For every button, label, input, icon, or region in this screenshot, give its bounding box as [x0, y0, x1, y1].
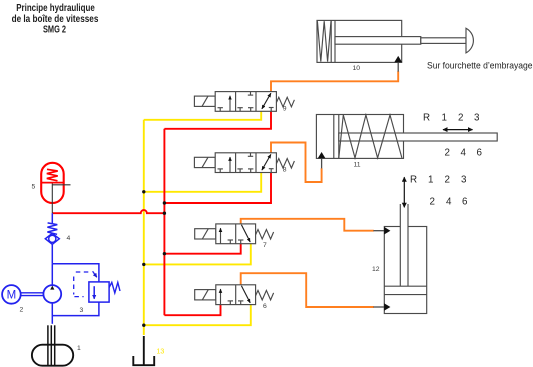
- title: [12, 3, 99, 36]
- blocked port T in left box of valve 7: [229, 240, 231, 244]
- suction triple line to tank 1: [48, 325, 55, 365]
- accumulator 5: [41, 163, 64, 203]
- svg-text:3: 3: [461, 174, 467, 185]
- blocked port T top of box2 of valve 8: [250, 153, 252, 157]
- wire yellow valve9 to vertical: [144, 111, 261, 120]
- wire red distribution vertical: [163, 129, 165, 315]
- blocked port T bottom-left of box2 of valve 8: [239, 169, 241, 173]
- svg-text:3: 3: [80, 307, 84, 314]
- cylinder 11 (gear selector): [316, 115, 497, 159]
- poppet diamond of check valve 4: [45, 233, 59, 244]
- svg-text:12: 12: [372, 266, 380, 273]
- spring of valve 7: [256, 230, 274, 240]
- svg-text:Principe hydraulique: Principe hydraulique: [16, 3, 95, 14]
- svg-text:5: 5: [32, 184, 36, 191]
- shaft motor-pump: [21, 292, 44, 294]
- svg-text:6: 6: [263, 303, 267, 310]
- blocked port T in box1 of valve 9: [219, 108, 221, 112]
- label 10: [353, 65, 361, 72]
- valve 6 (2/2 solenoid valve): [195, 285, 274, 305]
- junction red-valve8: [163, 201, 166, 204]
- svg-text:4: 4: [67, 235, 71, 242]
- blocked port T bottom-right of box2 of valve 9: [250, 108, 252, 112]
- cylinder 10: [317, 20, 473, 62]
- rod of cylinder 11: [339, 133, 497, 141]
- spring of relief valve: [109, 282, 120, 293]
- blocked port T in right box of valve 6: [240, 301, 242, 305]
- gas side tick of accumulator: [52, 184, 70, 214]
- rod of cylinder 10: [335, 37, 421, 45]
- svg-text:2: 2: [458, 113, 463, 124]
- arrow in left box of valve 7: [220, 228, 222, 244]
- svg-text:2: 2: [445, 147, 450, 158]
- arrow in box1 of valve 9: [229, 96, 231, 112]
- piston of cylinder 11: [333, 115, 335, 159]
- svg-text:6: 6: [477, 147, 483, 158]
- valve 8 (3/2 solenoid valve): [194, 153, 294, 173]
- valve 9 (3/2 solenoid valve): [194, 92, 294, 112]
- body of valve 6: [216, 285, 256, 305]
- label 2: [20, 307, 24, 314]
- fork on rod: [466, 28, 473, 53]
- blocked port T in box3 of valve 9: [270, 108, 272, 112]
- spring of cylinder 10: [317, 21, 331, 61]
- svg-text:SMG 2: SMG 2: [43, 25, 66, 36]
- label 12: [372, 266, 380, 273]
- diagonal flow path in right box of valve 7: [241, 225, 250, 242]
- svg-text:13: 13: [157, 349, 165, 356]
- pump unit enclosure 3: [52, 264, 99, 316]
- arrow into relief valve: [93, 271, 97, 277]
- svg-text:2: 2: [445, 174, 450, 185]
- spring of check valve 4: [47, 223, 57, 234]
- wire orange valve8 to cylinder11: [271, 143, 322, 183]
- check valve 4: [45, 213, 59, 264]
- wire orange valve6 to cylinder12 bottom: [241, 273, 374, 307]
- solenoid of valve 7: [195, 229, 216, 239]
- diagonal flow path in box3 of valve 8: [262, 154, 271, 170]
- spring of valve 6: [256, 290, 274, 300]
- svg-text:Sur fourchette d’embrayage: Sur fourchette d’embrayage: [427, 61, 533, 72]
- piston of cylinder 10: [330, 20, 332, 62]
- label 5: [32, 184, 36, 191]
- svg-text:3: 3: [474, 113, 480, 124]
- pilot dashed line of relief valve: [74, 272, 89, 297]
- arrow in box1 of valve 8: [229, 157, 231, 173]
- diagonal flow path in box3 of valve 9: [262, 93, 271, 109]
- label 7: [263, 242, 267, 249]
- body of valve 8: [215, 153, 276, 173]
- junction yellow-tank13: [142, 324, 145, 327]
- blocked port T bottom-left of box2 of valve 9: [239, 108, 241, 112]
- wire yellow valve7 to vertical: [144, 244, 251, 265]
- svg-text:2: 2: [430, 196, 435, 207]
- svg-text:de la boîte de vitesses: de la boîte de vitesses: [12, 14, 99, 25]
- wire orange valve9 to cylinder10: [271, 71, 398, 91]
- text sur fourchette: [427, 61, 533, 72]
- spring of valve 8: [276, 159, 294, 169]
- motor 2: [2, 285, 43, 304]
- wire yellow tank main vertical: [143, 120, 145, 335]
- svg-text:2: 2: [20, 307, 24, 314]
- wire red branch valve7: [164, 244, 240, 254]
- arrow in left box of valve 6: [220, 289, 222, 305]
- port arrow cylinder 10: [394, 56, 402, 72]
- body of valve 9: [215, 92, 276, 112]
- spring of accumulator 5: [47, 169, 58, 181]
- svg-text:M: M: [7, 290, 17, 302]
- blocked port T in right box of valve 7: [240, 240, 242, 244]
- spring of cylinder 11: [339, 115, 402, 158]
- text 2 4 6 lower: [430, 196, 469, 207]
- diagonal flow path in right box of valve 6: [241, 286, 250, 303]
- body of valve 7: [216, 224, 256, 244]
- junction red-main: [163, 212, 166, 215]
- svg-text:4: 4: [446, 196, 452, 207]
- tank 1: [32, 345, 73, 366]
- wire orange valve7 to cylinder12 top: [241, 219, 374, 231]
- svg-text:R: R: [423, 113, 430, 124]
- rod of cylinder 12: [400, 204, 408, 286]
- svg-text:1: 1: [428, 174, 433, 185]
- blocked port T in box3 of valve 8: [270, 169, 272, 173]
- text R 1 2 3 lower: [410, 174, 467, 185]
- svg-text:R: R: [410, 174, 417, 185]
- svg-text:7: 7: [263, 242, 267, 249]
- valve 7 (2/2 solenoid valve): [195, 224, 274, 244]
- blocked port T bottom-right of box2 of valve 8: [250, 169, 252, 173]
- blocked port T top of box2 of valve 9: [250, 92, 252, 96]
- port arrow cylinder 11: [318, 152, 326, 168]
- svg-text:6: 6: [462, 196, 468, 207]
- junction yellow-valve8: [142, 190, 145, 193]
- solenoid of valve 9: [194, 96, 215, 106]
- junction red-valve7: [163, 252, 166, 255]
- label 1: [77, 345, 81, 352]
- wire red branch valve9: [164, 111, 271, 129]
- junction yellow-valve7: [142, 263, 145, 266]
- label 3: [80, 307, 84, 314]
- wire red branch valve6: [164, 305, 220, 315]
- svg-text:9: 9: [283, 106, 287, 113]
- label 6: [263, 303, 267, 310]
- label 4: [67, 235, 71, 242]
- label 11: [354, 162, 361, 169]
- text R 1 2 3 upper: [423, 113, 480, 124]
- double arrow gear positions upper: [443, 129, 473, 131]
- blocked port T in box1 of valve 8: [219, 169, 221, 173]
- svg-text:11: 11: [354, 162, 361, 169]
- relief valve in pump unit: [74, 271, 120, 302]
- port arrow cylinder 12 bottom: [373, 303, 390, 311]
- blocked port T in left box of valve 6: [229, 301, 231, 305]
- svg-text:8: 8: [283, 167, 287, 174]
- svg-text:10: 10: [353, 65, 361, 72]
- double arrow gear positions lower: [403, 177, 405, 207]
- spring of valve 9: [276, 97, 294, 107]
- svg-text:4: 4: [461, 147, 467, 158]
- wire yellow valve6 to vertical: [144, 305, 251, 325]
- tank 13: [133, 336, 164, 365]
- svg-text:1: 1: [77, 345, 81, 352]
- solenoid of valve 6: [195, 290, 216, 300]
- solenoid of valve 8: [194, 157, 215, 167]
- text 2 4 6 upper: [445, 147, 483, 158]
- piston of cylinder 12: [384, 285, 426, 287]
- cylinder 12 (vertical selector): [384, 204, 426, 314]
- label 9: [283, 106, 287, 113]
- wire red main from accumulator with hop over yellow: [52, 210, 164, 213]
- wire yellow valve8 to vertical: [144, 172, 261, 192]
- wire red branch valve8: [164, 172, 271, 203]
- label 8: [283, 167, 287, 174]
- port arrow cylinder 12 top: [373, 227, 390, 235]
- pump: [43, 264, 61, 324]
- svg-text:1: 1: [442, 113, 447, 124]
